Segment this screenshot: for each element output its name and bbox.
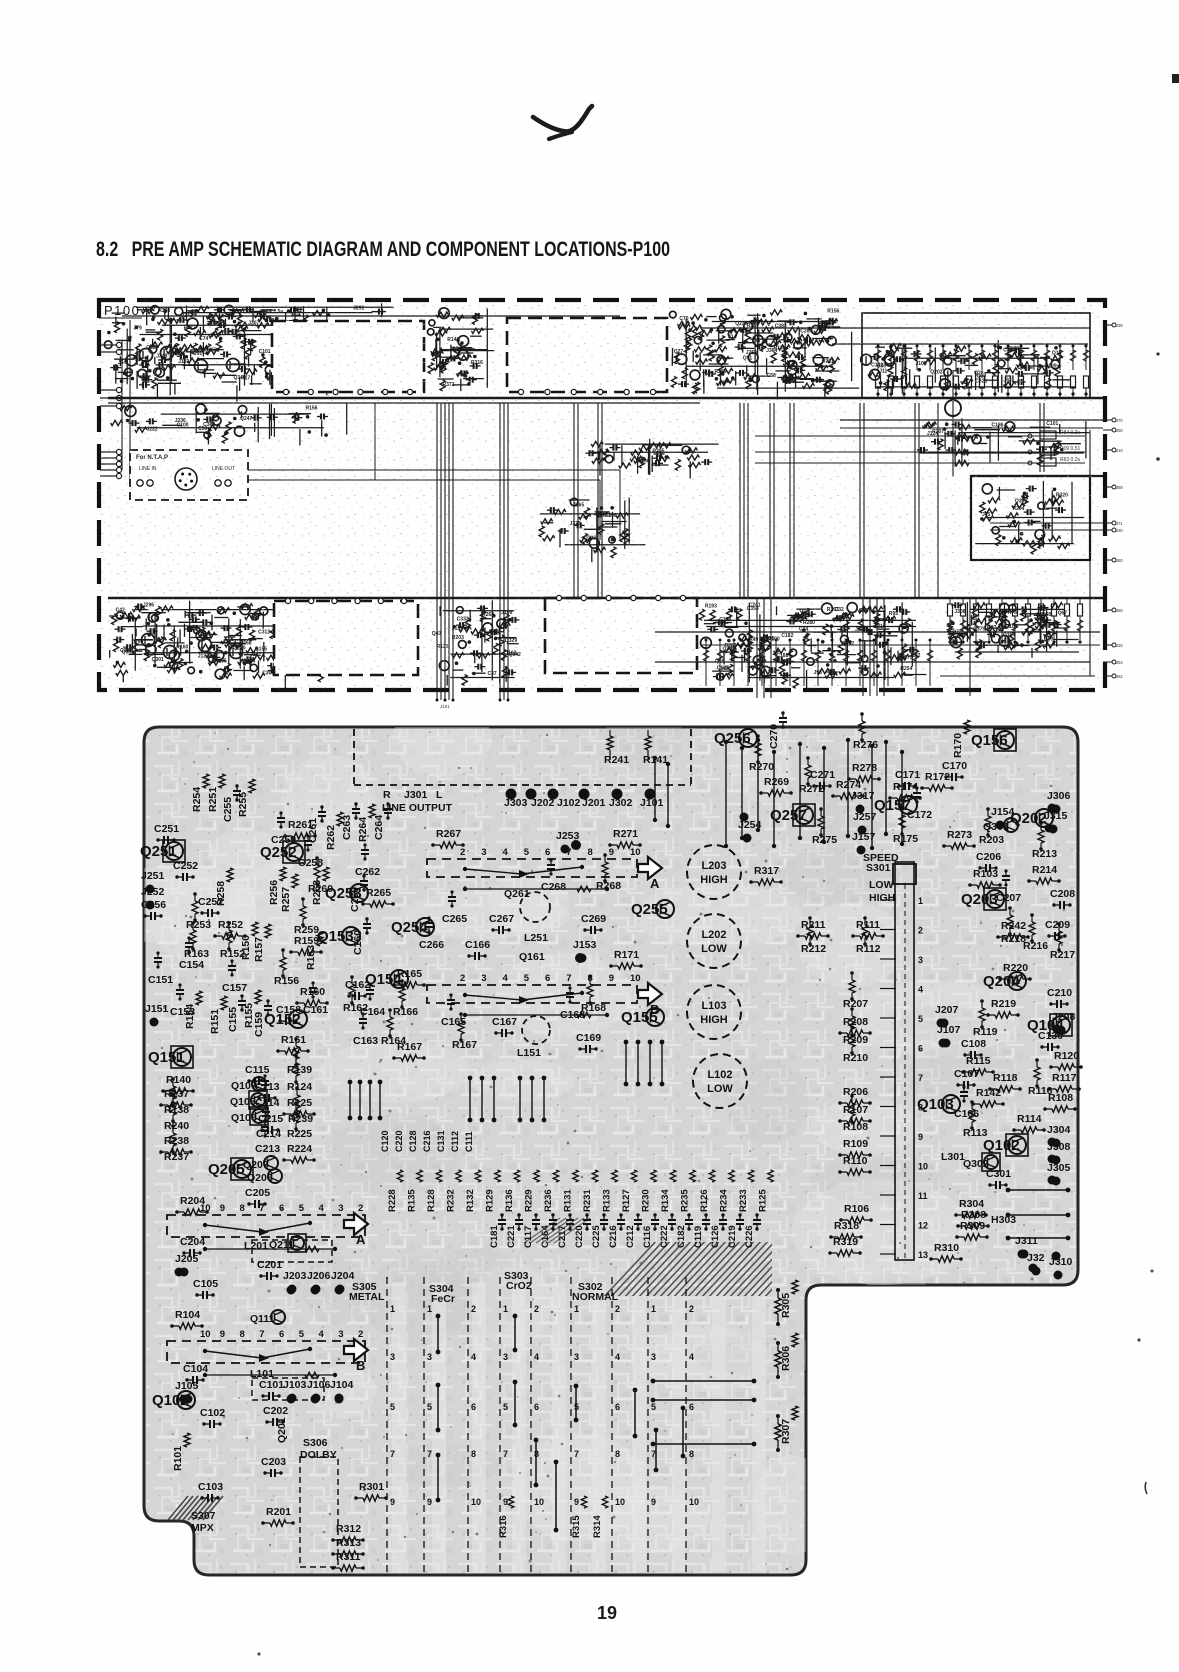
- svg-text:C215: C215: [258, 1113, 283, 1125]
- svg-text:C163: C163: [353, 1035, 378, 1047]
- svg-text:R269: R269: [764, 776, 789, 788]
- svg-text:J151: J151: [145, 1003, 169, 1015]
- svg-text:R253: R253: [186, 919, 211, 931]
- svg-text:L251: L251: [524, 932, 548, 944]
- svg-text:C261: C261: [307, 818, 319, 843]
- svg-text:R314: R314: [592, 1515, 603, 1538]
- svg-text:R228: R228: [387, 1189, 398, 1212]
- svg-text:R119: R119: [973, 1026, 998, 1038]
- svg-text:C151: C151: [148, 974, 173, 986]
- svg-text:C107: C107: [954, 1068, 979, 1080]
- svg-text:J153: J153: [573, 939, 597, 951]
- svg-text:R268: R268: [596, 880, 621, 892]
- svg-text:R111: R111: [856, 919, 880, 931]
- svg-text:R168: R168: [581, 1002, 606, 1014]
- svg-text:Q205: Q205: [208, 1161, 245, 1178]
- svg-text:C182: C182: [676, 1225, 687, 1248]
- svg-text:C166: C166: [465, 939, 490, 951]
- svg-text:R267: R267: [436, 828, 461, 840]
- svg-text:Q156: Q156: [971, 732, 1008, 749]
- svg-text:R207: R207: [843, 998, 868, 1010]
- svg-text:Q255: Q255: [631, 901, 668, 918]
- svg-text:R140: R140: [166, 1074, 191, 1086]
- svg-text:R256: R256: [268, 880, 280, 905]
- svg-text:R225: R225: [287, 1128, 312, 1140]
- svg-text:S306: S306: [303, 1437, 328, 1449]
- svg-text:Q251: Q251: [140, 843, 177, 860]
- svg-text:R132: R132: [465, 1189, 476, 1212]
- svg-text:C267: C267: [489, 913, 514, 925]
- svg-text:C251: C251: [154, 823, 179, 835]
- svg-text:C158: C158: [276, 1004, 301, 1016]
- svg-text:C128: C128: [408, 1130, 418, 1152]
- svg-text:R124: R124: [287, 1081, 312, 1093]
- svg-text:C208: C208: [1050, 888, 1075, 900]
- svg-text:C120: C120: [380, 1130, 390, 1152]
- svg-text:C102: C102: [200, 1407, 225, 1419]
- svg-text:R263: R263: [311, 880, 323, 905]
- svg-text:C204: C204: [180, 1236, 205, 1248]
- svg-text:C115: C115: [245, 1064, 270, 1076]
- svg-text:R234: R234: [719, 1189, 730, 1212]
- svg-text:FeCr: FeCr: [431, 1293, 455, 1305]
- svg-text:R136: R136: [504, 1189, 515, 1212]
- svg-text:METAL: METAL: [349, 1291, 385, 1303]
- svg-text:J106: J106: [307, 1379, 331, 1391]
- svg-text:R213: R213: [1032, 848, 1057, 860]
- svg-text:R175: R175: [893, 833, 918, 845]
- svg-text:C264: C264: [373, 815, 385, 840]
- svg-text:R317: R317: [754, 865, 779, 877]
- svg-text:R137: R137: [164, 1088, 189, 1100]
- svg-text:R208: R208: [843, 1016, 868, 1028]
- svg-text:Q257: Q257: [770, 807, 807, 824]
- svg-text:R251: R251: [207, 787, 219, 812]
- svg-text:R254: R254: [191, 787, 203, 812]
- svg-text:J104: J104: [330, 1379, 354, 1391]
- svg-text:Q101: Q101: [152, 1392, 189, 1409]
- svg-text:Q254: Q254: [391, 919, 428, 936]
- svg-text:R252: R252: [218, 919, 243, 931]
- svg-text:J257: J257: [853, 811, 877, 823]
- svg-text:R110: R110: [843, 1155, 868, 1167]
- svg-text:R255: R255: [237, 792, 249, 817]
- svg-text:Q252: Q252: [260, 844, 297, 861]
- svg-text:Q256: Q256: [714, 730, 751, 747]
- svg-text:C172: C172: [907, 809, 932, 821]
- svg-text:R270: R270: [749, 761, 774, 773]
- svg-text:Q102: Q102: [983, 1137, 1020, 1154]
- svg-text:R171: R171: [614, 949, 639, 961]
- svg-text:R129: R129: [485, 1189, 496, 1212]
- svg-text:R135: R135: [407, 1189, 418, 1212]
- svg-text:R238: R238: [164, 1135, 189, 1147]
- svg-text:C169: C169: [576, 1032, 601, 1044]
- svg-text:R128: R128: [426, 1189, 437, 1212]
- svg-text:C220: C220: [574, 1225, 585, 1248]
- svg-text:R165: R165: [397, 968, 422, 980]
- svg-text:J304: J304: [1047, 1124, 1071, 1136]
- svg-text:R315: R315: [571, 1515, 582, 1538]
- svg-text:R235: R235: [680, 1189, 691, 1212]
- svg-text:C301: C301: [986, 1168, 1011, 1180]
- svg-text:J302: J302: [609, 797, 633, 809]
- svg-text:R114: R114: [1017, 1113, 1042, 1125]
- svg-text:Q203: Q203: [961, 891, 998, 908]
- svg-text:C212: C212: [625, 1225, 636, 1248]
- svg-text:R183: R183: [305, 945, 317, 970]
- svg-text:R170: R170: [952, 733, 964, 758]
- svg-text:C111: C111: [464, 1131, 474, 1152]
- svg-text:C205: C205: [245, 1187, 270, 1199]
- svg-text:R: R: [383, 789, 391, 801]
- svg-text:R157: R157: [253, 937, 265, 962]
- svg-text:R310: R310: [934, 1242, 959, 1254]
- svg-text:HIGH: HIGH: [869, 892, 895, 904]
- svg-text:R278: R278: [852, 762, 877, 774]
- svg-text:C154: C154: [179, 959, 204, 971]
- svg-text:Q157: Q157: [874, 797, 911, 814]
- svg-text:MPX: MPX: [191, 1522, 214, 1534]
- svg-text:J32: J32: [1027, 1252, 1045, 1264]
- svg-text:C226: C226: [744, 1225, 755, 1248]
- svg-text:R151: R151: [209, 1009, 221, 1034]
- svg-text:J303: J303: [504, 797, 528, 809]
- svg-text:R240: R240: [164, 1120, 189, 1132]
- svg-text:C206: C206: [976, 851, 1001, 863]
- svg-text:R112: R112: [856, 943, 881, 955]
- svg-text:R156: R156: [274, 975, 299, 987]
- svg-text:C108: C108: [961, 1038, 986, 1050]
- svg-text:C202: C202: [263, 1405, 288, 1417]
- svg-text:R131: R131: [563, 1189, 574, 1212]
- svg-text:R133: R133: [602, 1189, 613, 1212]
- svg-text:R206: R206: [843, 1086, 868, 1098]
- svg-text:C214: C214: [256, 1128, 281, 1140]
- svg-text:C207: C207: [996, 892, 1021, 904]
- svg-text:C260: C260: [349, 887, 361, 912]
- svg-text:R236: R236: [543, 1189, 554, 1212]
- svg-text:Q161: Q161: [519, 951, 545, 963]
- svg-text:R104: R104: [175, 1309, 200, 1321]
- svg-text:R232: R232: [446, 1189, 457, 1212]
- svg-text:CrO2: CrO2: [506, 1280, 532, 1292]
- svg-text:R233: R233: [738, 1189, 749, 1212]
- svg-text:C101: C101: [259, 1379, 284, 1391]
- svg-text:R127: R127: [621, 1189, 632, 1212]
- svg-text:R138: R138: [164, 1104, 189, 1116]
- svg-text:S301: S301: [866, 862, 891, 874]
- svg-text:LINE OUTPUT: LINE OUTPUT: [382, 802, 453, 814]
- svg-text:R257: R257: [280, 887, 292, 912]
- svg-text:C160: C160: [352, 930, 364, 955]
- svg-text:C219: C219: [727, 1225, 738, 1248]
- svg-text:J251: J251: [141, 870, 165, 882]
- svg-text:R108: R108: [843, 1121, 868, 1133]
- svg-text:R319: R319: [833, 1236, 858, 1248]
- svg-text:R229: R229: [524, 1189, 535, 1212]
- svg-text:R107: R107: [843, 1104, 868, 1116]
- svg-text:DOLBY: DOLBY: [300, 1449, 337, 1461]
- svg-text:C157: C157: [222, 982, 247, 994]
- svg-text:R109: R109: [843, 1138, 868, 1150]
- svg-text:C266: C266: [419, 939, 444, 951]
- svg-text:R230: R230: [641, 1189, 652, 1212]
- svg-text:R139: R139: [287, 1064, 312, 1076]
- svg-text:J305: J305: [1047, 1162, 1071, 1174]
- svg-text:C104: C104: [183, 1363, 208, 1375]
- svg-text:C256: C256: [141, 899, 166, 911]
- svg-text:R237: R237: [164, 1151, 189, 1163]
- svg-text:C170: C170: [942, 760, 967, 772]
- svg-text:C252: C252: [173, 860, 198, 872]
- svg-text:C181: C181: [489, 1225, 500, 1248]
- svg-text:R210: R210: [843, 1052, 868, 1064]
- svg-text:R224: R224: [287, 1143, 312, 1155]
- svg-text:L201: L201: [244, 1240, 268, 1252]
- svg-text:C268: C268: [541, 881, 566, 893]
- svg-text:R309: R309: [960, 1220, 985, 1232]
- svg-text:R305: R305: [780, 1293, 792, 1318]
- svg-text:C225: C225: [591, 1225, 602, 1248]
- svg-text:C213: C213: [255, 1143, 280, 1155]
- svg-text:C164: C164: [360, 1006, 385, 1018]
- svg-text:C119: C119: [693, 1226, 704, 1248]
- svg-text:R204: R204: [180, 1195, 205, 1207]
- svg-text:J317: J317: [851, 790, 875, 802]
- svg-text:C203: C203: [261, 1456, 286, 1468]
- svg-text:C263: C263: [341, 815, 353, 840]
- svg-text:C210: C210: [1047, 987, 1072, 999]
- svg-text:R316: R316: [498, 1515, 509, 1538]
- svg-text:R307: R307: [780, 1419, 792, 1444]
- svg-text:R117: R117: [1052, 1072, 1077, 1084]
- svg-text:J205: J205: [175, 1253, 199, 1265]
- svg-text:C262: C262: [355, 866, 380, 878]
- svg-text:R166: R166: [393, 1006, 418, 1018]
- svg-text:R241: R241: [604, 754, 629, 766]
- svg-text:R212: R212: [801, 943, 826, 955]
- svg-text:R258: R258: [215, 881, 227, 906]
- svg-text:S307: S307: [191, 1510, 216, 1522]
- svg-text:J207: J207: [935, 1004, 959, 1016]
- svg-text:R231: R231: [582, 1189, 593, 1212]
- svg-text:R120: R120: [1054, 1050, 1079, 1062]
- svg-text:C171: C171: [895, 769, 920, 781]
- svg-text:C117: C117: [523, 1226, 534, 1248]
- svg-text:R211: R211: [801, 919, 826, 931]
- svg-text:R219: R219: [991, 998, 1016, 1010]
- svg-text:R311: R311: [336, 1551, 361, 1563]
- svg-text:R306: R306: [780, 1346, 792, 1371]
- svg-text:C131: C131: [436, 1130, 446, 1152]
- svg-text:L301: L301: [941, 1151, 965, 1163]
- svg-text:Q103: Q103: [917, 1096, 954, 1113]
- svg-text:R174: R174: [893, 781, 918, 793]
- svg-text:C216: C216: [608, 1225, 619, 1248]
- svg-text:R264: R264: [357, 817, 369, 842]
- svg-text:R142: R142: [976, 1087, 1001, 1099]
- svg-text:C265: C265: [442, 913, 467, 925]
- svg-text:C164: C164: [540, 1225, 551, 1248]
- svg-text:R313: R313: [336, 1537, 361, 1549]
- svg-text:Q201: Q201: [276, 1417, 288, 1443]
- svg-text:L: L: [436, 789, 443, 801]
- svg-text:R150: R150: [240, 935, 252, 960]
- svg-text:Q151: Q151: [148, 1049, 185, 1066]
- svg-text:C161: C161: [303, 1004, 328, 1016]
- svg-text:R125: R125: [758, 1189, 769, 1212]
- svg-text:C221: C221: [506, 1225, 517, 1248]
- svg-text:C269: C269: [581, 913, 606, 925]
- svg-text:R262: R262: [325, 825, 337, 850]
- svg-text:C255: C255: [222, 797, 234, 822]
- svg-text:R103: R103: [973, 868, 998, 880]
- svg-text:C116: C116: [642, 1226, 653, 1248]
- svg-text:C103: C103: [198, 1481, 223, 1493]
- svg-text:R271: R271: [613, 828, 638, 840]
- svg-text:Q155: Q155: [621, 1009, 658, 1026]
- svg-text:R134: R134: [660, 1189, 671, 1212]
- svg-text:C271: C271: [810, 769, 835, 781]
- svg-text:C270: C270: [768, 724, 780, 749]
- svg-text:J306: J306: [1047, 790, 1071, 802]
- svg-text:R312: R312: [336, 1523, 361, 1535]
- svg-text:C112: C112: [450, 1131, 460, 1152]
- svg-text:J103: J103: [283, 1379, 307, 1391]
- svg-text:R318: R318: [834, 1220, 859, 1232]
- svg-text:J102: J102: [557, 797, 581, 809]
- svg-text:J206: J206: [307, 1270, 331, 1282]
- svg-text:C201: C201: [257, 1259, 282, 1271]
- svg-text:J301: J301: [404, 789, 428, 801]
- svg-text:R101: R101: [172, 1446, 184, 1471]
- svg-text:R161: R161: [281, 1034, 306, 1046]
- svg-text:R106: R106: [844, 1203, 869, 1215]
- svg-text:R217: R217: [1050, 949, 1075, 961]
- svg-text:C105: C105: [193, 1278, 218, 1290]
- svg-text:C220: C220: [394, 1130, 404, 1152]
- svg-text:J252: J252: [141, 886, 165, 898]
- svg-text:C217: C217: [557, 1225, 568, 1248]
- svg-text:R167: R167: [452, 1039, 477, 1051]
- svg-text:R167: R167: [397, 1041, 422, 1053]
- svg-text:R214: R214: [1032, 864, 1057, 876]
- svg-text:R273: R273: [947, 829, 972, 841]
- svg-text:R301: R301: [359, 1481, 384, 1493]
- svg-text:J204: J204: [331, 1270, 355, 1282]
- svg-text:R265: R265: [366, 887, 391, 899]
- svg-text:Q204: Q204: [983, 973, 1020, 990]
- svg-text:R203: R203: [979, 834, 1004, 846]
- svg-text:J311: J311: [1015, 1235, 1038, 1247]
- svg-text:L151: L151: [517, 1047, 541, 1059]
- svg-text:R216: R216: [1023, 940, 1048, 952]
- svg-text:R108: R108: [1048, 1092, 1073, 1104]
- svg-text:H303: H303: [991, 1214, 1016, 1226]
- svg-text:R154: R154: [184, 1004, 196, 1029]
- svg-text:LOW: LOW: [869, 879, 894, 891]
- svg-text:R126: R126: [699, 1189, 710, 1212]
- svg-text:C222: C222: [659, 1225, 670, 1248]
- svg-text:C216: C216: [422, 1130, 432, 1152]
- svg-text:C167: C167: [492, 1016, 517, 1028]
- svg-text:R118: R118: [993, 1072, 1018, 1084]
- svg-text:R209: R209: [843, 1034, 868, 1046]
- svg-text:C155: C155: [227, 1007, 239, 1032]
- svg-text:R115: R115: [966, 1055, 991, 1067]
- svg-text:C126: C126: [710, 1225, 721, 1248]
- svg-text:J203: J203: [283, 1270, 307, 1282]
- svg-text:NORMAL: NORMAL: [572, 1291, 619, 1303]
- svg-text:R276: R276: [853, 739, 878, 751]
- svg-text:R201: R201: [266, 1506, 291, 1518]
